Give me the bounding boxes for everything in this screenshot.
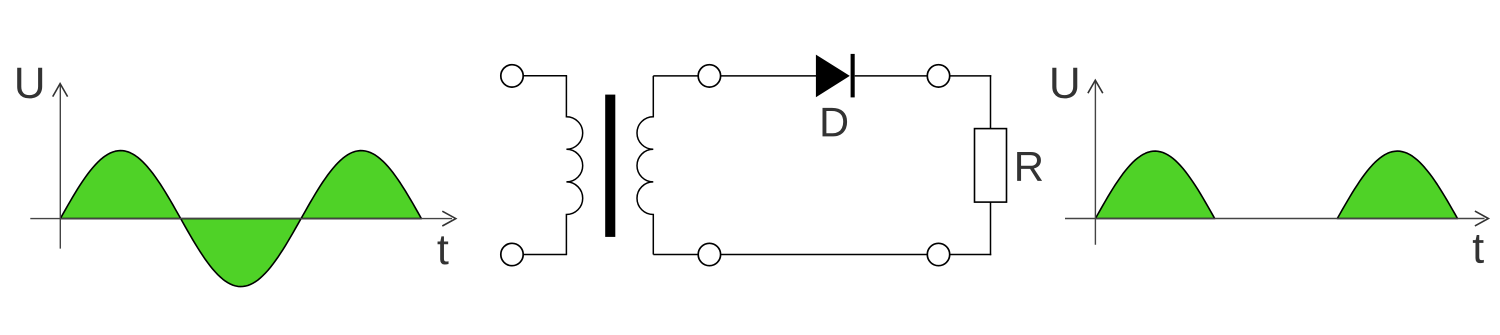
- wire: primary bottom lead: [512, 254, 567, 256]
- left graph: input sine wave (filled green): [60, 151, 421, 287]
- wire: resistor top lead: [990, 75, 992, 129]
- right graph label t: [1473, 235, 1484, 263]
- resistor R body: [975, 129, 1007, 203]
- right graph label U: [1052, 68, 1077, 99]
- terminal: secondary bottom: [698, 243, 720, 265]
- left graph U (voltage) axis: [53, 84, 68, 249]
- terminal: primary top: [501, 65, 523, 87]
- diode D (triangle + cathode bar): [816, 54, 855, 98]
- bottom return wire: [653, 254, 991, 256]
- right graph t (time) axis: [1065, 211, 1488, 226]
- terminal: output top: [927, 65, 949, 87]
- right graph U (voltage) axis: [1088, 80, 1103, 245]
- diode label D: [823, 108, 848, 137]
- terminal: primary bottom: [501, 243, 523, 265]
- transformer primary winding L1: [566, 76, 582, 255]
- transformer secondary winding L2: [637, 76, 653, 255]
- right graph: rectified hump 2 (filled green): [1337, 151, 1457, 218]
- resistor label R: [1017, 152, 1042, 181]
- left graph t (time) axis: [30, 211, 456, 226]
- left graph label t: [438, 236, 449, 264]
- terminal: output bottom: [927, 243, 949, 265]
- right graph: rectified hump 1 (filled green): [1095, 151, 1214, 218]
- left graph label U: [17, 68, 42, 99]
- terminal: secondary top: [698, 65, 720, 87]
- wire: diode cathode to load corner: [855, 75, 992, 77]
- wire: secondary top to diode anode: [653, 75, 816, 77]
- wire: primary top lead: [512, 75, 567, 77]
- wire: resistor bottom lead: [990, 202, 992, 255]
- transformer core: [605, 95, 615, 237]
